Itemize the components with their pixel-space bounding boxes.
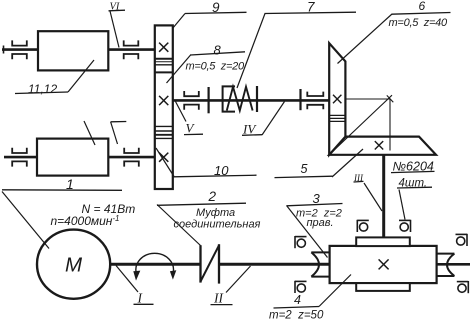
svg-text:1: 1 bbox=[66, 176, 74, 192]
svg-text:3: 3 bbox=[313, 191, 321, 206]
svg-text:5: 5 bbox=[301, 162, 308, 176]
svg-text:M: M bbox=[65, 254, 83, 277]
svg-text:№6204: №6204 bbox=[393, 160, 434, 174]
svg-text:4шт.: 4шт. bbox=[399, 178, 428, 190]
svg-text:2: 2 bbox=[208, 189, 217, 204]
svg-text:IV: IV bbox=[242, 122, 257, 137]
svg-text:6: 6 bbox=[419, 0, 426, 13]
svg-text:прав.: прав. bbox=[307, 217, 334, 229]
svg-text:Муфта: Муфта bbox=[196, 207, 235, 219]
svg-text:4: 4 bbox=[294, 293, 301, 307]
svg-text:m=2 z=50: m=2 z=50 bbox=[269, 310, 324, 320]
svg-text:III: III bbox=[353, 173, 364, 183]
svg-text:m=0,5 z=20: m=0,5 z=20 bbox=[186, 61, 246, 73]
svg-text:8: 8 bbox=[214, 43, 222, 58]
svg-text:II: II bbox=[213, 291, 224, 306]
svg-text:9: 9 bbox=[212, 0, 220, 15]
svg-text:10: 10 bbox=[214, 163, 229, 178]
svg-text:соединительная: соединительная bbox=[174, 219, 261, 231]
svg-text:m=0,5 z=40: m=0,5 z=40 bbox=[389, 17, 449, 29]
svg-text:7: 7 bbox=[307, 0, 315, 15]
svg-text:11,12: 11,12 bbox=[28, 82, 57, 96]
svg-text:n=4000мин-1: n=4000мин-1 bbox=[51, 214, 120, 228]
svg-text:VI: VI bbox=[110, 2, 120, 13]
